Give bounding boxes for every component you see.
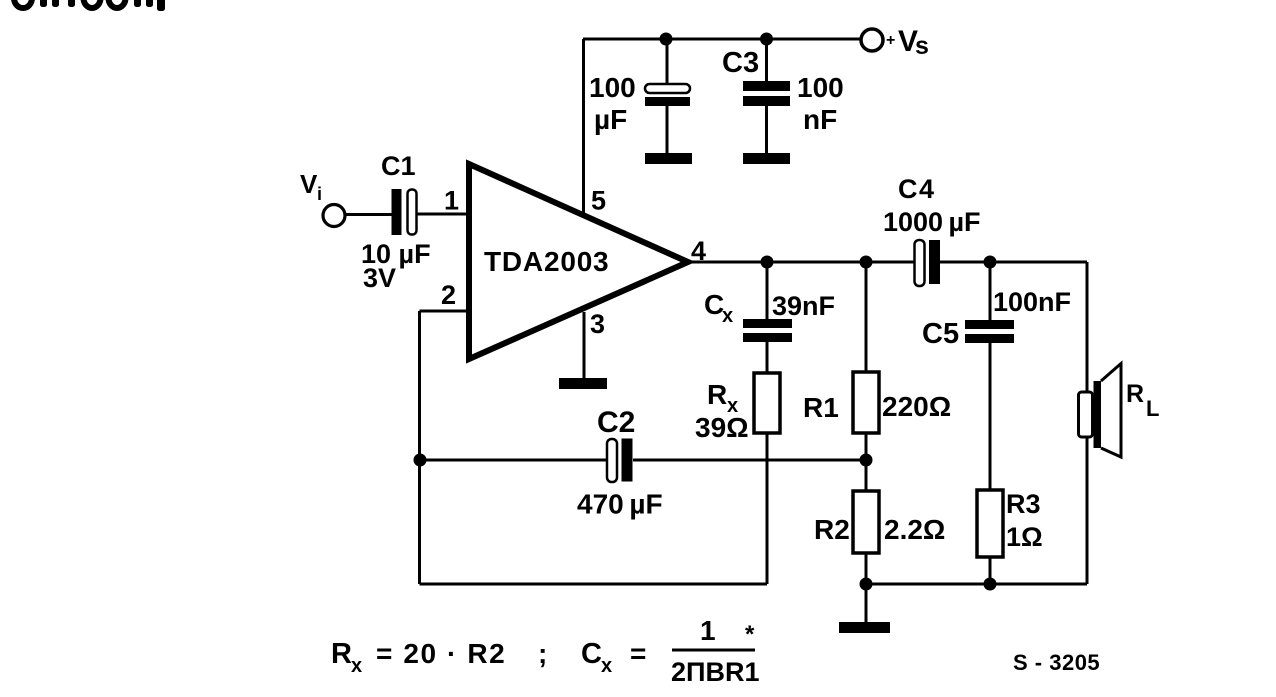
svg-text:C3: C3 bbox=[722, 47, 759, 79]
svg-text:x: x bbox=[351, 655, 362, 677]
capacitor C1 plates bbox=[392, 189, 417, 235]
svg-text:1000 µF: 1000 µF bbox=[883, 207, 981, 237]
svg-text:1Ω: 1Ω bbox=[1006, 522, 1043, 552]
node: output junction at R1 bbox=[860, 256, 873, 269]
wire: pin 5 vertical from rail to amplifier bbox=[582, 39, 585, 213]
svg-text:3: 3 bbox=[590, 309, 605, 339]
capacitor 100uF plates (electrolytic) bbox=[645, 84, 690, 106]
svg-text:C2: C2 bbox=[597, 406, 635, 439]
svg-text:µF: µF bbox=[594, 104, 627, 135]
node: junction at C5 bbox=[984, 256, 997, 269]
resistor R1 bbox=[853, 372, 879, 433]
svg-text:S - 3205: S - 3205 bbox=[1013, 650, 1100, 675]
capacitor C4 plates bbox=[915, 240, 941, 286]
svg-text:V: V bbox=[300, 169, 318, 199]
wire: pin 3 to ground bbox=[583, 312, 586, 378]
node: rail junction at C3 bbox=[760, 33, 773, 46]
svg-text:C1: C1 bbox=[381, 151, 416, 181]
wire: pin 2 from amplifier bbox=[420, 311, 468, 584]
wire: Vi to C1 bbox=[346, 213, 392, 216]
svg-text:C4: C4 bbox=[898, 174, 936, 204]
svg-text:*: * bbox=[745, 621, 755, 648]
node: pin2/feedback junction bbox=[414, 454, 427, 467]
svg-text:R3: R3 bbox=[1006, 489, 1041, 519]
wire: C3 branch bbox=[765, 39, 768, 155]
wire: RL branch bbox=[1086, 262, 1089, 584]
node: output junction at Cx bbox=[761, 256, 774, 269]
op-amp U1 TDA2003 triangle bbox=[469, 164, 688, 359]
wire: 100uF cap branch bbox=[666, 39, 669, 155]
wire: C1 to pin 1 bbox=[417, 213, 467, 216]
capacitor C2 plates bbox=[607, 439, 633, 483]
node: R2 bottom junction bbox=[860, 578, 873, 591]
svg-text:2.2Ω: 2.2Ω bbox=[884, 514, 945, 545]
svg-text:220Ω: 220Ω bbox=[882, 391, 951, 422]
ground at pin 3 bbox=[559, 378, 607, 389]
svg-text:1: 1 bbox=[444, 186, 459, 216]
speaker RL bbox=[1079, 364, 1122, 458]
svg-text:;: ; bbox=[538, 638, 547, 669]
svg-text:100: 100 bbox=[589, 72, 636, 103]
wire: Cx branch bbox=[766, 262, 769, 373]
resistor R3 bbox=[977, 490, 1003, 557]
svg-text:x: x bbox=[601, 655, 612, 677]
svg-text:4: 4 bbox=[691, 236, 706, 266]
svg-text:=: = bbox=[630, 638, 646, 669]
ground below R2 bbox=[839, 622, 890, 633]
svg-text:39Ω: 39Ω bbox=[695, 412, 749, 443]
svg-text:i: i bbox=[317, 184, 322, 204]
wire: bottom right rail bbox=[866, 583, 1087, 586]
svg-text:R: R bbox=[331, 638, 352, 670]
svg-text:3V: 3V bbox=[363, 263, 396, 293]
svg-text:C: C bbox=[581, 638, 602, 670]
svg-text:1: 1 bbox=[700, 615, 716, 646]
svg-text:2: 2 bbox=[441, 280, 456, 310]
node: R1/R2 feedback junction bbox=[860, 454, 873, 467]
wire: bottom feedback loop bbox=[420, 434, 768, 584]
svg-text:nF: nF bbox=[803, 104, 837, 135]
node: rail junction at 100uF bbox=[660, 33, 673, 46]
resistor Rx bbox=[754, 373, 780, 433]
svg-text:R2: R2 bbox=[814, 514, 850, 545]
capacitor C3 plates bbox=[743, 81, 790, 106]
svg-text:470 µF: 470 µF bbox=[577, 489, 663, 520]
svg-text:100: 100 bbox=[797, 72, 844, 103]
svg-text:= 20 · R2: = 20 · R2 bbox=[376, 638, 506, 669]
wire: R2 branch bbox=[865, 460, 868, 623]
svg-text:x: x bbox=[722, 305, 733, 327]
wire: top supply rail bbox=[583, 38, 860, 41]
wire: R1 branch bbox=[865, 262, 868, 460]
svg-text:TDA2003: TDA2003 bbox=[484, 246, 609, 277]
wire: output from pin 4 bbox=[688, 261, 1087, 264]
svg-text:L: L bbox=[1146, 396, 1159, 421]
wire: C5/R3 branch bbox=[989, 262, 992, 584]
wire: feedback line through C2 bbox=[420, 459, 867, 462]
svg-text:2ΠBR1: 2ΠBR1 bbox=[671, 657, 760, 687]
resistor R2 bbox=[853, 491, 879, 553]
capacitor Cx plates bbox=[743, 319, 792, 342]
svg-text:+: + bbox=[886, 32, 895, 49]
svg-text:C5: C5 bbox=[922, 318, 959, 350]
svg-text:5: 5 bbox=[591, 186, 606, 216]
terminal Vi bbox=[323, 205, 345, 227]
ground below C3 bbox=[743, 153, 790, 164]
svg-text:s: s bbox=[915, 32, 929, 60]
svg-text:R1: R1 bbox=[803, 392, 839, 423]
svg-text:R: R bbox=[707, 379, 727, 410]
svg-text:R: R bbox=[1126, 380, 1144, 408]
terminal +Vs bbox=[861, 29, 883, 51]
svg-text:39nF: 39nF bbox=[772, 291, 835, 321]
svg-text:100nF: 100nF bbox=[993, 287, 1071, 317]
capacitor C5 plates bbox=[965, 320, 1014, 343]
partial header text (cropped word top-left) bbox=[14, 0, 165, 11]
ground below 100uF bbox=[645, 153, 692, 164]
node: R3 bottom junction bbox=[984, 578, 997, 591]
